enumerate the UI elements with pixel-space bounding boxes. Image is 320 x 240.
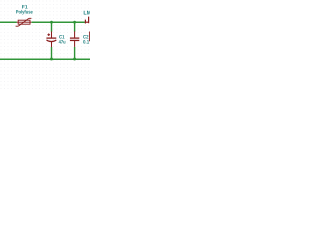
capacitor C2 (0.1) <box>70 31 79 47</box>
svg-text:47u: 47u <box>59 40 66 46</box>
svg-text:Polyfuse: Polyfuse <box>16 9 33 15</box>
junction: bottom node of C2 <box>73 58 76 61</box>
wire: bottom rail <box>0 58 90 60</box>
junction: bottom node of C1 <box>50 58 53 61</box>
fuse F1 (Polyfuse) <box>16 18 32 26</box>
wire: C2 bottom <box>74 47 76 59</box>
junction: top node of C1 <box>50 21 53 24</box>
svg-text:LM1: LM1 <box>83 10 90 16</box>
wire: left input segment to fuse F1 <box>0 21 17 23</box>
wire: C1 bottom <box>51 47 53 59</box>
capacitor C1 (polarized 47u) <box>46 32 56 48</box>
wire: C1 top <box>51 22 53 32</box>
junction: top node of C2 <box>73 21 76 24</box>
wire: C2 top <box>74 22 76 31</box>
svg-text:0.1: 0.1 <box>83 39 89 45</box>
regulator U1 input pin (clipped at right edge) <box>85 17 90 42</box>
wire: fuse F1 to regulator pin <box>32 21 85 23</box>
